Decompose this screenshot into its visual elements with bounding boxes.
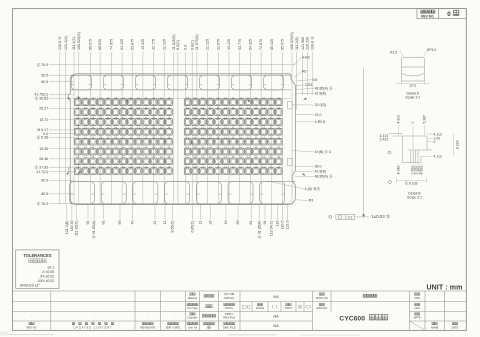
svg-text:4×(B) Ⓢ 3: 4×(B) Ⓢ 3 [315, 149, 331, 154]
svg-text:PROJ: PROJ [285, 306, 293, 310]
svg-text:53.775: 53.775 [238, 39, 242, 50]
svg-text:DWG.NO: DWG.NO [316, 306, 327, 310]
svg-text:UPDATED CONTENT: UPDATED CONTENT [74, 325, 113, 329]
svg-text:CMS NO.: CMS NO. [224, 296, 235, 300]
svg-text:4.562: 4.562 [420, 166, 424, 175]
part outline [68, 74, 295, 205]
svg-text:-: - [147, 314, 148, 318]
svg-text:REV NO: REV NO [27, 325, 37, 329]
svg-text:106.525(S): 106.525(S) [290, 32, 294, 50]
svg-text:24: 24 [209, 221, 213, 225]
svg-text:NAME: NAME [431, 325, 439, 329]
revision box top-right [417, 9, 466, 19]
svg-text:32.675: 32.675 [216, 39, 220, 50]
detail D view [401, 57, 424, 81]
svg-text:24: 24 [153, 221, 157, 225]
svg-text:DP3.0: DP3.0 [427, 48, 437, 52]
svg-text:38.0: 38.0 [315, 165, 322, 169]
left edge bump [68, 167, 70, 173]
svg-text:15.72: 15.72 [39, 118, 48, 122]
bottom ordinate labels [65, 221, 290, 239]
svg-text:8.223: 8.223 [455, 140, 459, 149]
svg-text:Ⓢ 76.0: Ⓢ 76.0 [37, 62, 49, 67]
svg-text:111.35(C): 111.35(C) [74, 221, 78, 236]
svg-text:59: 59 [118, 221, 122, 225]
svg-text:121.4(A): 121.4(A) [64, 36, 68, 50]
svg-text:53.875: 53.875 [130, 39, 134, 50]
left ordinate lines [49, 65, 295, 204]
svg-text:ENR / DATE: ENR / DATE [166, 325, 181, 329]
svg-text:UNIT : mm: UNIT : mm [427, 284, 463, 291]
svg-text:41.7(C): 41.7(C) [36, 170, 48, 174]
bottom ordinate ticks [67, 205, 288, 220]
svg-text:46: 46 [131, 221, 135, 225]
svg-text:22.225: 22.225 [162, 39, 166, 50]
svg-text:Scale 3:1: Scale 3:1 [405, 96, 420, 100]
bottom slot band lines [70, 182, 295, 204]
tolerance callout [329, 216, 332, 219]
svg-text:11: 11 [163, 221, 167, 225]
svg-text:4.112: 4.112 [434, 154, 442, 158]
svg-text:NA: NA [273, 314, 279, 318]
scan noise [2, 334, 360, 337]
top slot band lines [70, 75, 291, 90]
svg-text:Ⓢ 36.82: Ⓢ 36.82 [35, 95, 49, 100]
svg-text:8.0(C): 8.0(C) [176, 40, 180, 50]
svg-text:Sur Trea: Sur Trea [188, 306, 199, 310]
svg-text:REVN/DATE: REVN/DATE [140, 325, 155, 329]
svg-text:Ⓢ 76.0: Ⓢ 76.0 [37, 201, 49, 206]
svg-text:SCALE: SCALE [256, 306, 265, 310]
svg-text:65.5: 65.5 [41, 73, 48, 77]
svg-text:48.85(A) Ⓢ: 48.85(A) Ⓢ [315, 174, 333, 179]
svg-text:TOLERANCES: TOLERANCES [23, 253, 51, 258]
svg-text:Scale 3:1: Scale 3:1 [407, 196, 422, 200]
svg-text:94: 94 [86, 221, 90, 225]
svg-text:121.580: 121.580 [301, 37, 305, 50]
svg-text:NA: NA [273, 324, 279, 328]
svg-text:.XX ±0.02: .XX ±0.02 [39, 274, 54, 278]
svg-text:121.4(B): 121.4(B) [65, 221, 69, 235]
svg-text:DATE: DATE [452, 325, 459, 329]
svg-text:96.075: 96.075 [89, 39, 93, 50]
svg-text:4-R3: 4-R3 [302, 56, 310, 60]
svg-text:43.225: 43.225 [227, 39, 231, 50]
svg-text:.XXX ±0.02: .XXX ±0.02 [37, 279, 54, 283]
detail B profile [389, 134, 433, 163]
svg-text:60.5: 60.5 [41, 80, 48, 84]
svg-text:4-R0.8: 4-R0.8 [315, 120, 326, 124]
svg-text:130.8 Ⓢ: 130.8 Ⓢ [57, 36, 62, 50]
svg-text:Ⓢ 91.85(A): Ⓢ 91.85(A) [91, 221, 96, 239]
right edge detail rects [288, 102, 293, 109]
svg-text:.X ±0.05: .X ±0.05 [41, 270, 54, 274]
svg-text:1 : 1: 1 : 1 [272, 305, 278, 309]
svg-text:11: 11 [199, 221, 203, 225]
svg-text:81: 81 [249, 221, 253, 225]
svg-text:CHK: CHK [414, 306, 420, 310]
svg-text:74.975: 74.975 [110, 39, 114, 50]
svg-text:R6: R6 [302, 70, 307, 74]
svg-text:APPD: APPD [414, 316, 421, 320]
svg-text:42.8(B): 42.8(B) [315, 91, 326, 95]
svg-text:64.425: 64.425 [120, 39, 124, 50]
svg-text:111.3(D): 111.3(D) [295, 37, 299, 50]
svg-text:Material: Material [188, 296, 198, 300]
svg-text:0.0: 0.0 [184, 45, 188, 50]
svg-text:NA: NA [273, 295, 279, 299]
svg-text:94: 94 [263, 221, 267, 225]
svg-text:0.2: 0.2 [348, 216, 353, 220]
svg-text:Ⓢ 8.163: Ⓢ 8.163 [405, 181, 418, 186]
svg-text:Ⓢ 91.85(A): Ⓢ 91.85(A) [256, 221, 261, 239]
svg-text:REV NO.: REV NO. [421, 14, 434, 18]
svg-text:4-(A) ⓂⓈ: 4-(A) ⓂⓈ [305, 186, 321, 191]
svg-text:32.0(D): 32.0(D) [315, 103, 327, 107]
svg-text:21.0: 21.0 [315, 113, 322, 117]
svg-text:2.423: 2.423 [380, 138, 389, 142]
svg-text:0: 0 [434, 140, 436, 144]
svg-text:64.325: 64.325 [249, 39, 253, 50]
svg-text:113.54(C): 113.54(C) [270, 221, 274, 237]
svg-text:26.46: 26.46 [39, 157, 48, 161]
svg-text:43.325: 43.325 [141, 39, 145, 50]
svg-text:116.5: 116.5 [281, 221, 285, 230]
svg-text:4.902: 4.902 [397, 115, 401, 124]
svg-text:PMS FILE: PMS FILE [223, 316, 235, 320]
datum arrows [66, 96, 307, 176]
svg-text:DSN: DSN [414, 296, 420, 300]
svg-text:ANGLES ±2°: ANGLES ±2° [20, 284, 40, 288]
svg-text:86.525: 86.525 [98, 39, 102, 50]
svg-text:ROUG: ROUG [225, 306, 233, 310]
bottom slot row [70, 182, 285, 204]
right leader labels [302, 56, 333, 203]
svg-text:28.27: 28.27 [39, 107, 48, 111]
svg-text:22.125: 22.125 [206, 39, 210, 50]
svg-text:Ⓢ 37.83: Ⓢ 37.83 [35, 165, 49, 170]
svg-text:130.8 Ⓢ: 130.8 Ⓢ [309, 36, 314, 50]
view divider line [363, 68, 365, 217]
svg-text:(8.2): (8.2) [410, 83, 417, 87]
svg-text:59: 59 [236, 221, 240, 225]
top ordinate labels [57, 32, 314, 50]
top ordinate extension lines [60, 52, 312, 205]
svg-text:6.8(C): 6.8(C) [190, 40, 194, 50]
svg-text:-: - [93, 314, 94, 318]
svg-text:2-R1: 2-R1 [305, 83, 313, 87]
svg-text:6.85(C): 6.85(C) [191, 221, 195, 233]
svg-text:126.130: 126.130 [306, 37, 310, 50]
svg-text:DWG FILE: DWG FILE [223, 325, 236, 329]
svg-text:0: 0 [411, 122, 415, 124]
svg-text:4.082: 4.082 [397, 166, 401, 175]
title block [13, 291, 467, 330]
svg-text:46: 46 [224, 221, 228, 225]
svg-text:60.5: 60.5 [41, 179, 48, 183]
svg-text:-: - [31, 314, 32, 318]
svg-text:106.625(S): 106.625(S) [77, 32, 81, 50]
svg-text:48.85(A) Ⓢ: 48.85(A) Ⓢ [315, 86, 333, 91]
svg-text:Ⓢ 5.36: Ⓢ 5.36 [37, 135, 49, 140]
svg-text:111.4(C): 111.4(C) [72, 37, 76, 50]
svg-text:11.575(S): 11.575(S) [195, 34, 199, 50]
svg-text:74.875: 74.875 [259, 39, 263, 50]
svg-text:15.35: 15.35 [39, 147, 48, 151]
svg-text:Chamfer: Chamfer [188, 316, 198, 320]
detail B view [380, 115, 460, 200]
svg-text:MODL NO: MODL NO [316, 296, 328, 300]
svg-text:95.975: 95.975 [281, 39, 285, 50]
svg-text:R1.5: R1.5 [390, 51, 397, 55]
svg-text:5.287: 5.287 [423, 115, 427, 124]
svg-text:32.775: 32.775 [152, 39, 156, 50]
svg-text:85.425: 85.425 [270, 39, 274, 50]
svg-text:Gen Tol: Gen Tol [188, 325, 197, 329]
svg-text:8.05(C): 8.05(C) [171, 221, 175, 233]
svg-text:CYC600: CYC600 [339, 315, 365, 322]
tolerances box [16, 250, 59, 289]
svg-text:9.8: 9.8 [313, 78, 318, 82]
svg-text:DP82.7: DP82.7 [225, 312, 234, 316]
top slot row [71, 75, 284, 90]
svg-text:-: - [173, 314, 174, 318]
svg-text:81: 81 [102, 221, 106, 225]
svg-text:121.0: 121.0 [286, 221, 290, 230]
svg-text:R3: R3 [309, 199, 314, 203]
svg-text:1±0.03 Ⓢ: 1±0.03 Ⓢ [371, 213, 391, 220]
svg-text:DX7=0B: DX7=0B [224, 292, 234, 296]
svg-text:0: 0 [447, 11, 451, 18]
svg-text:42.8(B): 42.8(B) [315, 170, 326, 174]
svg-text:±0.1: ±0.1 [47, 266, 54, 270]
svg-text:116: 116 [276, 221, 280, 227]
left ordinate labels [34, 62, 48, 206]
svg-text:65.5: 65.5 [41, 192, 48, 196]
